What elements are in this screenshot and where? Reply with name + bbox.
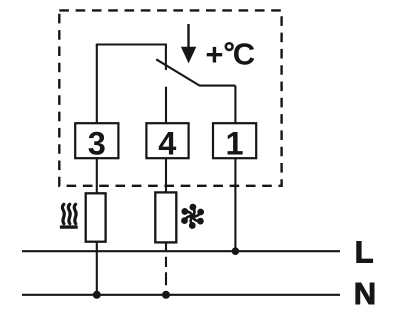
svg-text:3: 3	[88, 126, 106, 162]
junction dot on L	[232, 247, 240, 255]
heating symbol	[60, 204, 78, 227]
dashed wire: fan to N	[165, 257, 167, 285]
wire: terminal 3 down to heater load	[96, 158, 98, 193]
wire: fan load down to L crossing	[165, 242, 167, 251]
junction dot on N (heater)	[93, 291, 101, 299]
wire: top horizontal	[96, 43, 166, 45]
terminal box 4	[146, 123, 188, 158]
heater load (resistor)	[86, 193, 106, 241]
dashed enclosure (thermostat outline)	[59, 10, 281, 185]
wire: terminal 3 up to switch	[96, 45, 98, 123]
junction dot on N (fan)	[162, 291, 170, 299]
svg-text:N: N	[354, 276, 376, 311]
terminal box 1	[213, 123, 256, 158]
switch blade	[156, 59, 199, 85]
fan symbol	[177, 201, 208, 231]
svg-text:L: L	[355, 234, 374, 269]
label +°C	[205, 36, 255, 72]
svg-text:C: C	[233, 36, 255, 71]
N line	[22, 294, 340, 296]
svg-text:4: 4	[158, 126, 176, 162]
svg-text:+: +	[205, 37, 223, 72]
wire: heater load down to N	[96, 242, 98, 295]
wire: terminal 4 up (open contact)	[165, 87, 167, 123]
fan load	[155, 192, 176, 242]
svg-text:1: 1	[226, 126, 244, 162]
wire: terminal 4 down to fan load	[165, 158, 167, 192]
wire: terminal 1 up	[234, 86, 236, 123]
wire: terminal 1 down to L	[234, 158, 236, 251]
wire: pivot to terminal 1 column	[199, 85, 235, 87]
wire: fixed contact drop	[165, 44, 167, 71]
L line	[22, 250, 340, 252]
terminal box 3	[75, 123, 118, 158]
arrow (actuation direction)	[181, 24, 196, 63]
